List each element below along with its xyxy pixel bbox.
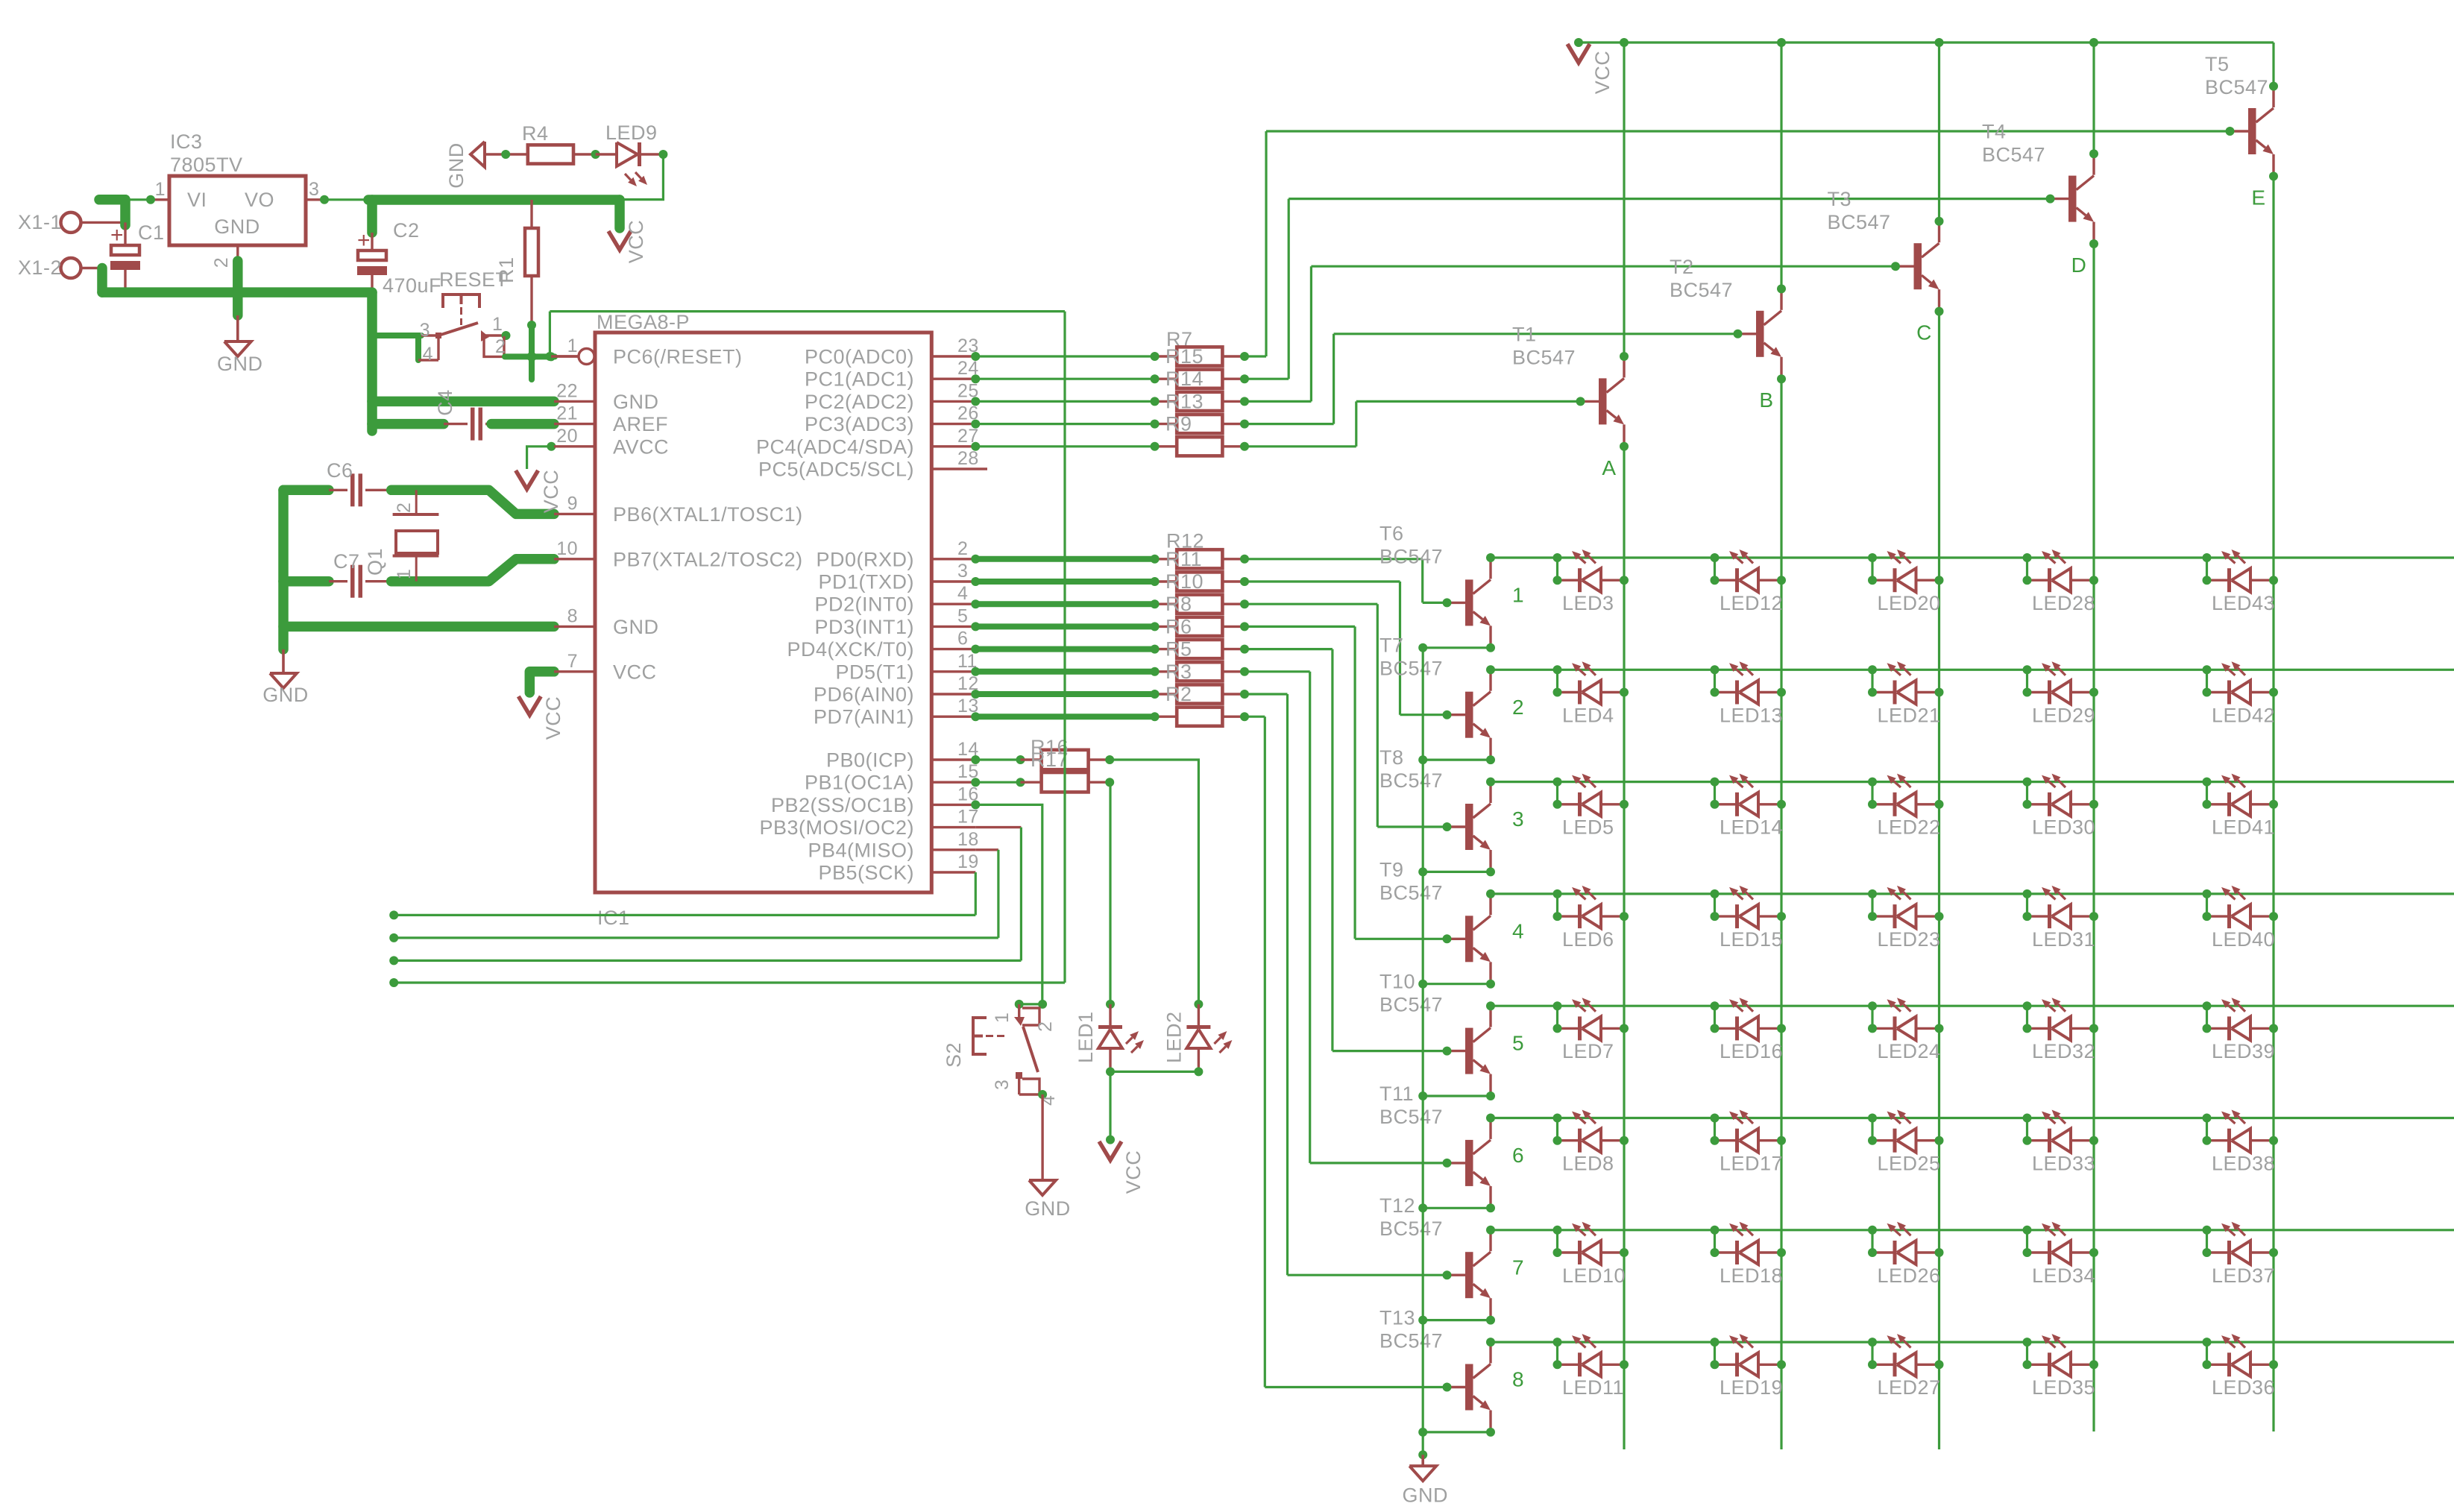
svg-text:VCC: VCC [1591,51,1614,95]
svg-text:VCC: VCC [613,661,657,683]
svg-text:BC547: BC547 [1379,545,1443,567]
svg-text:LED17: LED17 [1720,1153,1783,1175]
svg-text:PC4(ADC4/SDA): PC4(ADC4/SDA) [756,435,914,458]
svg-text:AREF: AREF [613,413,668,435]
svg-text:1: 1 [492,314,503,335]
svg-text:PB3(MOSI/OC2): PB3(MOSI/OC2) [759,816,914,839]
svg-text:22: 22 [556,380,578,401]
svg-text:LED40: LED40 [2212,928,2275,951]
svg-text:LED27: LED27 [1878,1376,1941,1399]
svg-text:T1: T1 [1512,323,1537,345]
svg-text:R15: R15 [1165,345,1204,368]
svg-text:21: 21 [556,403,578,424]
svg-text:18: 18 [957,829,979,850]
svg-text:BC547: BC547 [1379,1106,1443,1128]
svg-text:R10: R10 [1165,570,1204,593]
svg-text:2: 2 [1035,1021,1056,1032]
svg-text:Q1: Q1 [364,548,386,576]
svg-text:T9: T9 [1379,858,1404,881]
svg-text:LED31: LED31 [2032,928,2095,951]
svg-text:BC547: BC547 [1379,881,1443,904]
svg-text:GND: GND [445,142,468,189]
svg-text:LED3: LED3 [1562,592,1614,614]
svg-text:LED25: LED25 [1878,1153,1941,1175]
svg-text:19: 19 [957,851,979,872]
svg-text:T11: T11 [1379,1083,1414,1105]
svg-text:PB1(OC1A): PB1(OC1A) [805,772,914,794]
svg-text:BC547: BC547 [2205,76,2268,98]
svg-text:MEGA8-P: MEGA8-P [597,311,690,333]
svg-text:3: 3 [309,179,319,200]
svg-text:T5: T5 [2205,53,2230,75]
svg-text:D: D [2071,253,2087,277]
svg-text:4: 4 [423,344,433,365]
svg-text:1: 1 [1512,584,1524,607]
svg-text:PD7(AIN1): PD7(AIN1) [814,706,914,728]
svg-text:LED8: LED8 [1562,1153,1614,1175]
svg-text:LED21: LED21 [1878,704,1941,726]
svg-text:GND: GND [613,391,659,413]
svg-text:R1: R1 [495,256,517,283]
svg-text:LED2: LED2 [1162,1011,1185,1063]
svg-text:28: 28 [957,448,979,469]
svg-text:6: 6 [1512,1144,1524,1167]
svg-text:LED35: LED35 [2032,1376,2095,1399]
svg-text:8: 8 [567,605,578,626]
svg-text:R17: R17 [1031,749,1069,771]
svg-text:3: 3 [992,1080,1013,1090]
svg-text:R14: R14 [1165,368,1204,390]
svg-text:VCC: VCC [542,696,564,740]
svg-text:B: B [1759,388,1773,412]
svg-text:PB2(SS/OC1B): PB2(SS/OC1B) [771,794,914,816]
svg-text:VCC: VCC [540,470,562,514]
svg-text:GND: GND [262,684,309,706]
svg-text:5: 5 [957,605,968,626]
svg-text:1: 1 [992,1012,1013,1023]
svg-text:LED38: LED38 [2212,1153,2275,1175]
svg-text:VI: VI [187,189,207,211]
svg-text:X1-1: X1-1 [18,211,62,233]
svg-text:X1-2: X1-2 [18,256,62,279]
svg-text:IC1: IC1 [597,907,630,929]
svg-text:1: 1 [155,179,166,200]
svg-text:LED33: LED33 [2032,1153,2095,1175]
svg-text:R13: R13 [1165,390,1204,412]
svg-text:PD5(T1): PD5(T1) [835,661,914,683]
svg-text:GND: GND [1025,1197,1071,1220]
svg-text:BC547: BC547 [1670,279,1733,301]
svg-text:GND: GND [613,616,659,638]
svg-text:R2: R2 [1165,683,1192,705]
svg-text:T7: T7 [1379,634,1404,657]
svg-text:R9: R9 [1165,413,1192,435]
svg-text:9: 9 [567,493,578,514]
svg-text:LED24: LED24 [1878,1040,1941,1062]
svg-text:VCC: VCC [625,220,647,264]
svg-text:GND: GND [217,353,263,375]
svg-text:T6: T6 [1379,522,1404,544]
svg-text:T3: T3 [1828,188,1852,210]
svg-text:LED9: LED9 [605,122,658,144]
svg-text:7: 7 [1512,1256,1524,1279]
svg-text:VCC: VCC [1122,1150,1145,1194]
svg-text:LED32: LED32 [2032,1040,2095,1062]
svg-text:LED12: LED12 [1720,592,1783,614]
svg-text:PD1(TXD): PD1(TXD) [818,571,914,593]
svg-text:LED20: LED20 [1878,592,1941,614]
svg-text:GND: GND [214,215,260,238]
svg-text:BC547: BC547 [1379,769,1443,792]
svg-text:BC547: BC547 [1828,211,1891,233]
svg-text:LED34: LED34 [2032,1264,2095,1287]
svg-text:C: C [1916,321,1932,344]
svg-text:+: + [110,223,124,248]
svg-text:T10: T10 [1379,971,1415,993]
svg-text:LED16: LED16 [1720,1040,1783,1062]
svg-text:BC547: BC547 [1379,1330,1443,1352]
svg-text:LED4: LED4 [1562,704,1614,726]
svg-text:2: 2 [957,538,968,559]
svg-text:2: 2 [211,257,232,268]
svg-text:PC0(ADC0): PC0(ADC0) [805,346,914,368]
svg-text:LED1: LED1 [1075,1011,1097,1063]
svg-text:C7: C7 [333,550,360,573]
svg-text:+: + [357,228,371,253]
svg-text:BC547: BC547 [1379,994,1443,1016]
svg-text:7805TV: 7805TV [170,154,243,176]
svg-text:LED13: LED13 [1720,704,1783,726]
svg-text:4: 4 [957,583,968,604]
svg-text:PC3(ADC3): PC3(ADC3) [805,413,914,435]
svg-text:R3: R3 [1165,661,1192,683]
svg-text:PB5(SCK): PB5(SCK) [818,862,914,884]
svg-text:PD3(INT1): PD3(INT1) [814,616,914,638]
svg-text:17: 17 [957,807,979,828]
svg-text:LED26: LED26 [1878,1264,1941,1287]
svg-text:LED15: LED15 [1720,928,1783,951]
svg-text:20: 20 [556,426,578,447]
svg-text:PB0(ICP): PB0(ICP) [826,749,914,772]
svg-text:LED22: LED22 [1878,816,1941,839]
svg-text:T12: T12 [1379,1194,1415,1217]
svg-text:BC547: BC547 [1379,658,1443,680]
svg-text:PB4(MISO): PB4(MISO) [808,839,914,861]
svg-text:LED28: LED28 [2032,592,2095,614]
svg-text:3: 3 [1512,807,1524,831]
svg-text:R11: R11 [1165,548,1202,570]
svg-text:10: 10 [556,538,578,559]
svg-text:PD4(XCK/T0): PD4(XCK/T0) [787,638,914,661]
svg-text:1: 1 [567,336,578,356]
svg-text:LED10: LED10 [1562,1264,1626,1287]
svg-text:LED41: LED41 [2212,816,2275,839]
svg-text:6: 6 [957,629,968,649]
svg-text:PB7(XTAL2/TOSC2): PB7(XTAL2/TOSC2) [613,548,803,570]
svg-text:PC5(ADC5/SCL): PC5(ADC5/SCL) [758,459,914,481]
svg-text:3: 3 [957,561,968,582]
svg-text:4: 4 [1512,919,1524,942]
svg-text:4: 4 [1038,1095,1059,1106]
svg-text:PC1(ADC1): PC1(ADC1) [805,368,914,391]
svg-text:LED36: LED36 [2212,1376,2275,1399]
svg-text:8: 8 [1512,1368,1524,1391]
svg-text:LED5: LED5 [1562,816,1614,839]
svg-text:C6: C6 [327,459,353,482]
svg-text:3: 3 [420,320,430,341]
svg-text:LED14: LED14 [1720,816,1783,839]
svg-text:LED42: LED42 [2212,704,2275,726]
svg-text:2: 2 [1512,696,1524,719]
svg-text:LED7: LED7 [1562,1040,1614,1062]
svg-text:5: 5 [1512,1032,1524,1055]
svg-text:LED23: LED23 [1878,928,1941,951]
svg-text:C1: C1 [138,221,165,244]
svg-text:PD0(RXD): PD0(RXD) [816,548,914,570]
svg-text:T4: T4 [1982,121,2007,143]
svg-text:PC6(/RESET): PC6(/RESET) [613,346,743,368]
svg-text:470uF: 470uF [383,274,441,297]
svg-text:BC547: BC547 [1379,1218,1443,1240]
svg-text:T8: T8 [1379,746,1404,769]
svg-text:GND: GND [1402,1484,1448,1506]
svg-text:LED6: LED6 [1562,928,1614,951]
svg-text:LED29: LED29 [2032,704,2095,726]
svg-text:LED37: LED37 [2212,1264,2275,1287]
svg-text:BC547: BC547 [1982,144,2045,166]
svg-text:PC2(ADC2): PC2(ADC2) [805,391,914,413]
svg-text:C4: C4 [434,389,456,416]
svg-text:BC547: BC547 [1512,346,1576,368]
svg-text:AVCC: AVCC [613,435,669,458]
svg-text:LED19: LED19 [1720,1376,1783,1399]
svg-text:S2: S2 [943,1042,965,1068]
svg-text:LED11: LED11 [1562,1376,1624,1399]
svg-text:VO: VO [245,189,274,211]
svg-text:R6: R6 [1165,615,1192,637]
svg-text:PD2(INT0): PD2(INT0) [814,593,914,616]
svg-text:C2: C2 [393,219,420,242]
svg-text:PB6(XTAL1/TOSC1): PB6(XTAL1/TOSC1) [613,503,803,526]
svg-text:1: 1 [394,569,415,579]
svg-text:LED30: LED30 [2032,816,2095,839]
svg-text:LED18: LED18 [1720,1264,1783,1287]
svg-text:E: E [2251,186,2265,209]
svg-text:LED43: LED43 [2212,592,2275,614]
svg-text:A: A [1602,456,1616,479]
svg-text:R5: R5 [1165,638,1192,661]
svg-text:R4: R4 [522,122,549,145]
svg-text:7: 7 [567,651,578,672]
svg-text:T2: T2 [1670,256,1694,278]
svg-text:2: 2 [394,503,415,513]
svg-text:T13: T13 [1379,1307,1415,1329]
svg-text:R8: R8 [1165,593,1192,615]
svg-text:IC3: IC3 [170,130,203,153]
svg-text:LED39: LED39 [2212,1040,2275,1062]
svg-text:PD6(AIN0): PD6(AIN0) [814,684,914,706]
